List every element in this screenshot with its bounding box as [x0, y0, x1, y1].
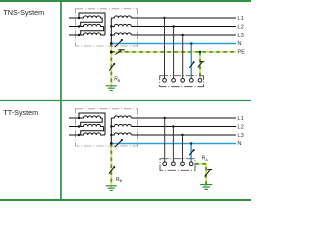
PEN drop to earth yellow base	[110, 44, 112, 86]
terminal L1	[163, 78, 167, 82]
terminal L2	[172, 162, 176, 166]
terminal L2	[172, 78, 176, 82]
PE wire to earth RA green dashes	[195, 164, 206, 185]
earth electrode RB bar3	[110, 90, 113, 92]
earth electrode RA bar3	[204, 188, 208, 190]
primary winding W3 return wire	[79, 113, 105, 135]
junction dot phase1 primary	[78, 117, 80, 119]
junction dot star bus L2	[110, 25, 112, 27]
svg-text:TT-System: TT-System	[3, 108, 38, 117]
wire N (blue)	[111, 143, 236, 145]
divider horizontal line	[0, 100, 251, 101]
drop wire L3 to load	[182, 35, 184, 79]
earth electrode RB bar2	[108, 187, 115, 189]
secondary winding W4	[111, 116, 131, 118]
secondary winding W6	[111, 33, 131, 35]
terminal N	[189, 78, 193, 82]
primary winding W3	[79, 33, 105, 35]
svg-text:N: N	[237, 41, 241, 47]
disconnect mark on earth conductor RA	[205, 169, 211, 176]
earth electrode RA yellow stub	[205, 185, 207, 187]
wire L1	[131, 17, 236, 19]
drop wire PE to load yellow base	[199, 52, 201, 79]
primary winding W1 return wire	[81, 118, 103, 127]
terminal L3	[181, 162, 185, 166]
terminal N	[189, 162, 193, 166]
junction dot phase3 primary	[78, 34, 80, 36]
transformer T2 enclosure (dash-dot box)	[76, 109, 138, 146]
primary winding W1	[79, 116, 102, 118]
disconnect mark on PE at transformer	[116, 50, 122, 55]
primary winding W2	[79, 24, 104, 26]
svg-text:TNS-System: TNS-System	[3, 8, 44, 17]
wire N (blue)	[111, 43, 236, 45]
earth conductor RB yellow base	[110, 144, 112, 186]
labels for conductors top panel	[237, 16, 245, 55]
secondary winding W4	[111, 16, 131, 18]
feeder wire phase 1	[69, 17, 79, 19]
junction dot star bus L3	[110, 34, 112, 36]
junction dot L2 drop	[172, 25, 174, 27]
secondary star-point bus	[110, 118, 112, 144]
svg-text:N: N	[237, 141, 241, 147]
earth electrode RB yellow stub	[110, 86, 112, 88]
junction dot L1 drop	[164, 117, 166, 119]
primary winding W2	[79, 124, 104, 126]
load box (dash-dot)	[160, 159, 195, 171]
junction dot star bus L3	[110, 134, 112, 136]
drop wire L2 to load	[173, 27, 175, 79]
wire L2	[131, 26, 236, 28]
junction dot phase3 primary	[78, 134, 80, 136]
wire PE green dashes	[111, 51, 236, 53]
terminal L3	[181, 78, 185, 82]
drop wire L3 to load	[182, 135, 184, 162]
drop wire N to load (blue)	[190, 144, 192, 163]
svg-text:L2: L2	[237, 25, 243, 31]
feeder wire phase 2	[69, 26, 79, 28]
drop wire PE to load green dashes	[199, 52, 201, 79]
svg-text:L1: L1	[237, 16, 243, 22]
junction dot phase2 primary	[78, 125, 80, 127]
earth electrode RB bar2	[108, 87, 115, 89]
junction dot star bus L2	[110, 125, 112, 127]
node PE at transformer	[110, 51, 113, 54]
disconnect mark on N drop at load	[189, 150, 194, 156]
junction dot N drop	[190, 42, 192, 44]
junction dot L3 drop	[181, 134, 183, 136]
labels for conductors bottom panel	[237, 116, 243, 147]
primary winding W1	[79, 16, 102, 18]
drop wire L1 to load	[164, 18, 166, 79]
node N at transformer	[110, 142, 113, 145]
secondary winding W5	[111, 124, 131, 126]
junction dot N drop	[190, 142, 192, 144]
load box (dash-dot)	[160, 76, 204, 87]
svg-text:PE: PE	[237, 49, 245, 55]
svg-text:L3: L3	[237, 133, 243, 139]
junction dot PE drop	[199, 51, 201, 53]
frame top border	[0, 0, 251, 2]
PE wire to earth RA yellow base	[195, 164, 206, 185]
transformer T1 enclosure (dash-dot box)	[76, 9, 138, 46]
svg-text:L2: L2	[237, 125, 243, 131]
frame bottom border	[0, 199, 251, 201]
wire L1	[131, 117, 236, 119]
earth electrode RB yellow stub	[110, 186, 112, 188]
node N at transformer	[110, 42, 113, 45]
svg-text:L1: L1	[237, 116, 243, 122]
junction dot L2 drop	[172, 125, 174, 127]
junction dot L3 drop	[182, 34, 184, 36]
primary winding W3	[79, 133, 105, 135]
primary winding W1 return wire	[81, 18, 103, 27]
terminal L1	[163, 162, 167, 166]
feeder wire phase 3	[69, 134, 79, 136]
earth electrode RA bar2	[202, 186, 210, 188]
junction dot phase2 primary	[78, 25, 80, 27]
wire L3	[131, 134, 236, 136]
drop wire L1 to load	[164, 118, 166, 162]
drop wire L2 to load	[172, 127, 174, 163]
secondary winding W6	[111, 133, 131, 135]
junction dot L1 drop	[163, 17, 165, 19]
disconnect mark on earth conductor RB	[109, 166, 115, 174]
primary winding W2 return wire	[81, 27, 104, 36]
wire L2	[131, 126, 236, 128]
disconnect mark on N drop at load	[189, 62, 194, 68]
drop wire N to load (blue)	[190, 44, 192, 79]
earth electrode RB bar1	[106, 185, 117, 187]
disconnect mark on earth conductor RB	[109, 63, 115, 71]
feeder wire phase 1	[69, 117, 79, 119]
PEN drop to earth green dashes	[110, 44, 112, 86]
earth conductor RB green dashes	[110, 144, 112, 186]
disconnect mark on N at transformer	[115, 40, 122, 47]
earth electrode RB bar1	[106, 85, 117, 87]
earth electrode RB bar3	[110, 190, 113, 192]
wire L3	[131, 34, 236, 36]
primary winding W3 return wire	[79, 13, 105, 35]
secondary star-point bus	[110, 18, 112, 44]
wire PE yellow base	[111, 51, 236, 53]
feeder wire phase 3	[69, 34, 79, 36]
svg-text:L3: L3	[237, 33, 243, 39]
divider vertical line	[60, 0, 62, 201]
feeder wire phase 2	[69, 126, 79, 128]
terminal PE	[198, 78, 202, 82]
junction dot phase1 primary	[78, 17, 80, 19]
disconnect mark on N at transformer	[115, 140, 122, 147]
earth electrode RA bar1	[200, 184, 212, 186]
primary winding W2 return wire	[81, 127, 104, 136]
disconnect mark on PE drop at load	[198, 61, 203, 67]
secondary winding W5	[111, 24, 131, 26]
